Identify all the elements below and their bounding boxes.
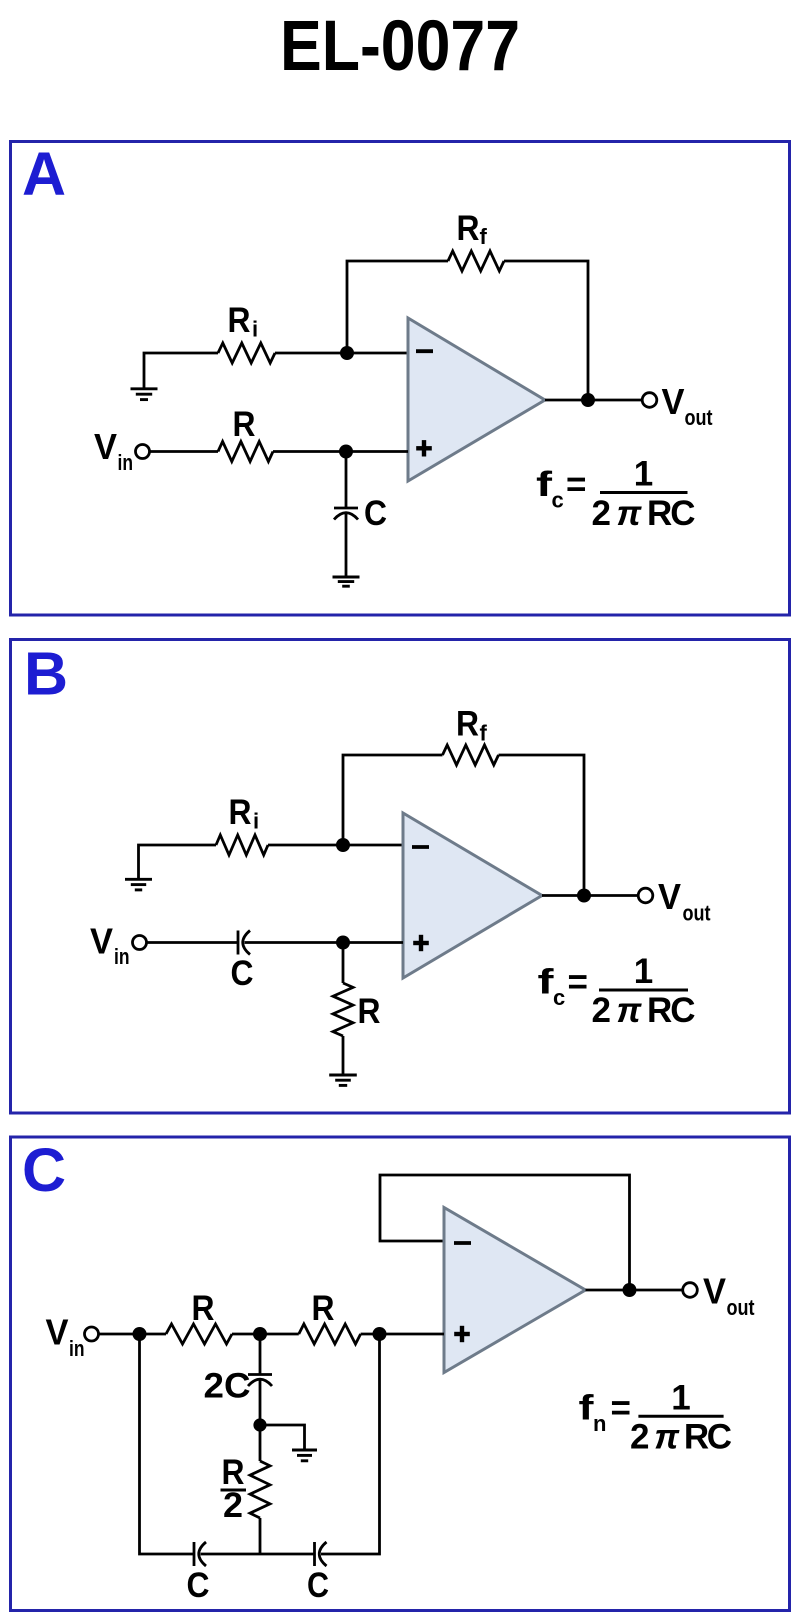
panel B frame — [11, 640, 790, 1114]
formula fn (panel C) — [579, 1379, 733, 1457]
svg-text:2C: 2C — [204, 1367, 251, 1406]
svg-text:c: c — [553, 985, 565, 1010]
svg-text:in: in — [69, 1336, 85, 1361]
label Vin (panel A) — [94, 426, 133, 475]
svg-text:R: R — [456, 705, 479, 744]
panel A frame — [11, 142, 790, 616]
wire: B R top lead — [342, 943, 345, 984]
formula fc (panel B) — [538, 952, 696, 1030]
resistor R/2 (panel C) — [250, 1461, 270, 1518]
ground (B, at Ri) — [139, 845, 217, 879]
ground (B, below R) — [329, 1074, 357, 1077]
label Ri (panel B) — [229, 793, 260, 834]
terminal: B Vin circle — [133, 936, 147, 950]
node: C junction 3 — [373, 1327, 387, 1341]
node: B output junction — [577, 889, 591, 903]
svg-text:EL-0077: EL-0077 — [280, 7, 520, 86]
node: C junction 4 — [253, 1418, 266, 1431]
resistor R (panel B, to ground) — [333, 983, 353, 1036]
op-amp U1 minus sign — [416, 349, 433, 353]
resistor Rf (panel B) — [443, 745, 499, 765]
svg-text:R: R — [229, 793, 252, 832]
svg-text:C: C — [307, 1566, 329, 1605]
node: A output junction — [581, 393, 595, 407]
svg-text:f: f — [579, 1389, 594, 1428]
op-amp U1 (panel A) — [408, 318, 545, 481]
terminal: C Vout circle — [683, 1283, 698, 1298]
node: B inverting junction — [336, 838, 350, 852]
label Vout (panel B) — [658, 876, 711, 926]
svg-text:=: = — [566, 465, 586, 504]
capacitor 2C (panel C) — [248, 1375, 272, 1387]
wire: C Vin to R1 — [99, 1333, 167, 1336]
capacitor C2 (panel C bottom) — [315, 1542, 327, 1566]
wire: B R bottom lead — [342, 1036, 345, 1074]
capacitor C1 (panel C bottom) — [194, 1542, 206, 1566]
op-amp U2 plus sign — [413, 935, 429, 951]
svg-text:f: f — [480, 224, 488, 249]
svg-text:out: out — [685, 405, 714, 430]
terminal: A Vout circle — [642, 393, 657, 408]
resistor Ri (panel A) — [218, 343, 275, 363]
svg-text:C: C — [187, 1566, 210, 1605]
wire: B feedback right riser — [499, 755, 585, 896]
label Ri (panel A) — [228, 301, 259, 342]
wire: C R/2 top lead — [259, 1425, 262, 1461]
op-amp U2 (panel B) — [403, 813, 542, 978]
svg-text:V: V — [46, 1312, 69, 1353]
wire: A cap top lead — [345, 452, 348, 509]
svg-text:V: V — [94, 426, 117, 467]
label Vout (panel C) — [703, 1271, 755, 1321]
wire: C 2C bottom lead — [259, 1380, 262, 1425]
svg-text:c: c — [552, 488, 564, 513]
node: A inverting junction — [340, 346, 354, 360]
svg-text:=: = — [568, 963, 588, 1002]
formula fc (panel A) — [536, 455, 696, 534]
op-amp U2 minus sign — [412, 845, 429, 849]
svg-text:R: R — [312, 1289, 335, 1328]
svg-text:f: f — [538, 963, 554, 1002]
svg-text:i: i — [253, 809, 259, 834]
wire: B output — [542, 894, 639, 897]
terminal: C Vin circle — [85, 1327, 99, 1341]
svg-text:1: 1 — [634, 455, 653, 494]
svg-text:A: A — [22, 140, 66, 208]
label R/2 (panel C) — [221, 1453, 247, 1525]
op-amp U3 (panel C) — [444, 1208, 586, 1373]
svg-text:V: V — [662, 381, 685, 422]
ground (A, at Ri) — [144, 353, 218, 388]
svg-text:=: = — [611, 1389, 631, 1428]
label Vin (panel B) — [90, 921, 130, 970]
svg-text:1: 1 — [671, 1379, 690, 1418]
svg-text:R: R — [192, 1289, 215, 1328]
wire: Ri to inverting input — [275, 352, 408, 355]
wire: C right riser from bottom rail — [321, 1334, 380, 1554]
svg-text:V: V — [703, 1271, 726, 1312]
wire: C output — [586, 1289, 684, 1292]
wire: A feedback left riser — [347, 261, 448, 353]
wire: B feedback left riser — [343, 755, 443, 845]
resistor R2 (panel C) — [299, 1324, 361, 1344]
terminal: A Vin circle — [136, 445, 150, 459]
capacitor C (panel A) — [334, 508, 358, 520]
label Vout (panel A) — [662, 381, 714, 430]
svg-text:C: C — [22, 1136, 66, 1204]
wire: R to non-inverting input — [273, 450, 408, 453]
wire: A feedback right riser — [504, 261, 588, 400]
wire: A output — [545, 399, 643, 402]
wire: B C to non-inverting input — [245, 941, 404, 944]
wire: C R/2 bottom lead — [259, 1518, 262, 1554]
capacitor C (panel B, series) — [238, 931, 250, 955]
wire: C bottom rail middle — [201, 1553, 315, 1556]
svg-text:R: R — [228, 301, 251, 340]
node: A non-inverting junction — [339, 445, 353, 459]
resistor Rf (panel A) — [448, 251, 504, 271]
svg-text:f: f — [536, 465, 552, 504]
node: C junction 1 — [133, 1327, 147, 1341]
svg-text:1: 1 — [634, 952, 653, 991]
wire: A Vin to R — [150, 450, 219, 453]
op-amp U3 minus sign — [454, 1241, 471, 1245]
svg-text:f: f — [480, 721, 488, 746]
terminal: B Vout circle — [638, 888, 653, 903]
label Rf (panel A) — [457, 209, 488, 249]
svg-text:2: 2 — [223, 1486, 243, 1525]
svg-text:in: in — [118, 450, 134, 475]
svg-text:R: R — [457, 209, 480, 248]
wire: C feedback loop — [380, 1175, 630, 1290]
svg-text:2 π RC: 2 π RC — [592, 991, 696, 1030]
svg-text:i: i — [252, 317, 258, 342]
label Rf (panel B) — [456, 705, 488, 746]
svg-text:out: out — [683, 901, 712, 926]
resistor R1 (panel C) — [166, 1324, 232, 1344]
resistor R (panel A) — [218, 442, 273, 462]
ground (C, middle) — [260, 1425, 305, 1449]
svg-text:C: C — [364, 494, 387, 533]
svg-text:V: V — [90, 921, 113, 962]
wire: A cap bottom lead — [345, 514, 348, 577]
svg-text:n: n — [593, 1411, 606, 1436]
wire: C left riser to bottom rail — [140, 1334, 195, 1554]
wire: C R2 to non-inverting input — [361, 1333, 444, 1336]
wire: C R1 to R2 — [232, 1333, 299, 1336]
svg-text:V: V — [658, 876, 681, 917]
wire: B Ri to inverting input — [268, 844, 403, 847]
wire: B Vin to C — [147, 941, 239, 944]
resistor Ri (panel B) — [216, 835, 268, 855]
ground (A, below C) — [333, 576, 360, 579]
op-amp U1 plus sign — [416, 440, 432, 456]
panel C frame — [11, 1137, 790, 1611]
svg-text:C: C — [231, 954, 254, 993]
label Vin (panel C) — [46, 1312, 85, 1362]
svg-text:2 π RC: 2 π RC — [592, 494, 696, 533]
svg-text:in: in — [114, 944, 130, 969]
svg-text:B: B — [24, 640, 68, 708]
wire: C 2C top lead — [259, 1334, 262, 1375]
svg-text:out: out — [727, 1295, 756, 1320]
svg-text:R: R — [358, 992, 381, 1031]
svg-text:2 π RC: 2 π RC — [630, 1418, 732, 1457]
svg-text:R: R — [233, 405, 256, 444]
op-amp U3 plus sign — [454, 1326, 470, 1342]
node: B non-inverting junction — [336, 936, 350, 950]
node: C junction 2 — [253, 1327, 267, 1341]
node: C output junction — [623, 1283, 637, 1297]
